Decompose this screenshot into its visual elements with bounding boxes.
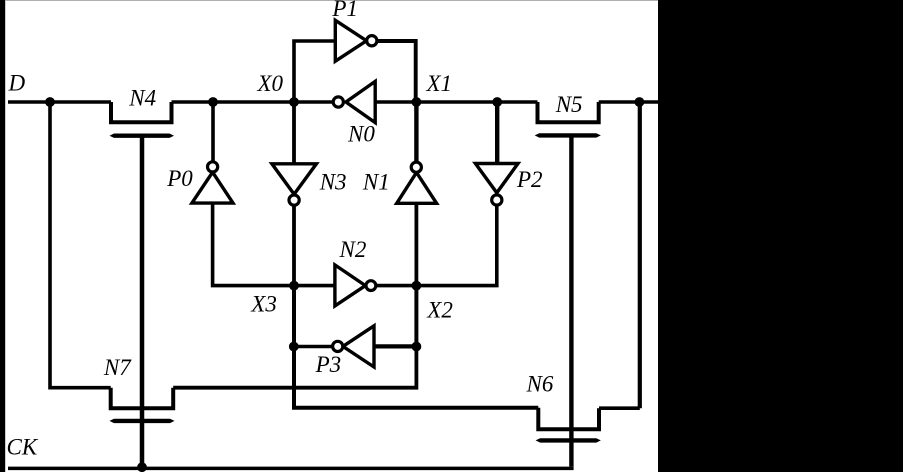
- svg-text:N6: N6: [526, 372, 554, 397]
- svg-text:CK: CK: [7, 435, 39, 460]
- svg-text:P3: P3: [315, 352, 342, 377]
- svg-text:N3: N3: [319, 170, 347, 195]
- svg-text:P1: P1: [331, 0, 358, 21]
- svg-text:N7: N7: [103, 355, 132, 380]
- svg-text:N4: N4: [128, 85, 156, 110]
- svg-text:X1: X1: [426, 71, 453, 96]
- svg-text:N0: N0: [347, 122, 375, 147]
- svg-text:X3: X3: [250, 292, 277, 317]
- svg-text:P0: P0: [166, 166, 193, 191]
- svg-text:N2: N2: [339, 237, 367, 262]
- svg-text:P2: P2: [516, 167, 543, 192]
- svg-text:N1: N1: [362, 170, 390, 195]
- svg-text:N5: N5: [555, 92, 583, 117]
- svg-text:X2: X2: [426, 297, 453, 322]
- svg-text:X0: X0: [257, 71, 284, 96]
- svg-text:D: D: [8, 71, 26, 96]
